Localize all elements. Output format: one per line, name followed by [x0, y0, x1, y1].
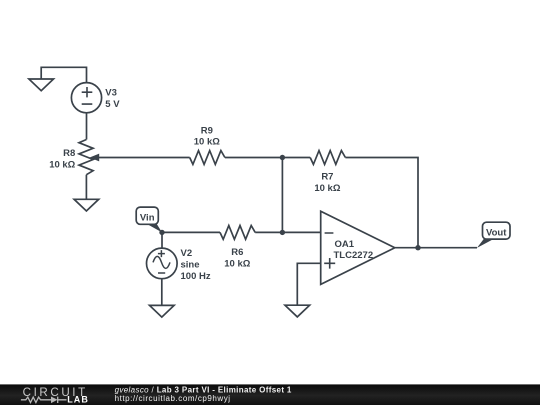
- svg-text:10 kΩ: 10 kΩ: [314, 183, 340, 194]
- svg-text:10 kΩ: 10 kΩ: [224, 258, 250, 269]
- svg-text:V2: V2: [181, 248, 193, 259]
- svg-text:LAB: LAB: [67, 394, 89, 404]
- svg-text:5 V: 5 V: [105, 99, 120, 110]
- svg-text:Vin: Vin: [140, 212, 155, 223]
- svg-text:http://circuitlab.com/cp9hwyj: http://circuitlab.com/cp9hwyj: [115, 394, 231, 403]
- svg-text:sine: sine: [181, 260, 200, 271]
- svg-text:10 kΩ: 10 kΩ: [194, 136, 220, 147]
- svg-text:OA1: OA1: [335, 239, 355, 250]
- svg-text:Vout: Vout: [486, 228, 507, 239]
- svg-text:R6: R6: [231, 247, 243, 258]
- svg-text:TLC2272: TLC2272: [334, 250, 374, 261]
- svg-text:10 kΩ: 10 kΩ: [49, 160, 75, 171]
- svg-text:R8: R8: [63, 148, 75, 159]
- svg-text:R9: R9: [201, 125, 213, 136]
- svg-text:100 Hz: 100 Hz: [181, 271, 211, 282]
- svg-text:R7: R7: [321, 172, 333, 183]
- svg-text:V3: V3: [105, 87, 117, 98]
